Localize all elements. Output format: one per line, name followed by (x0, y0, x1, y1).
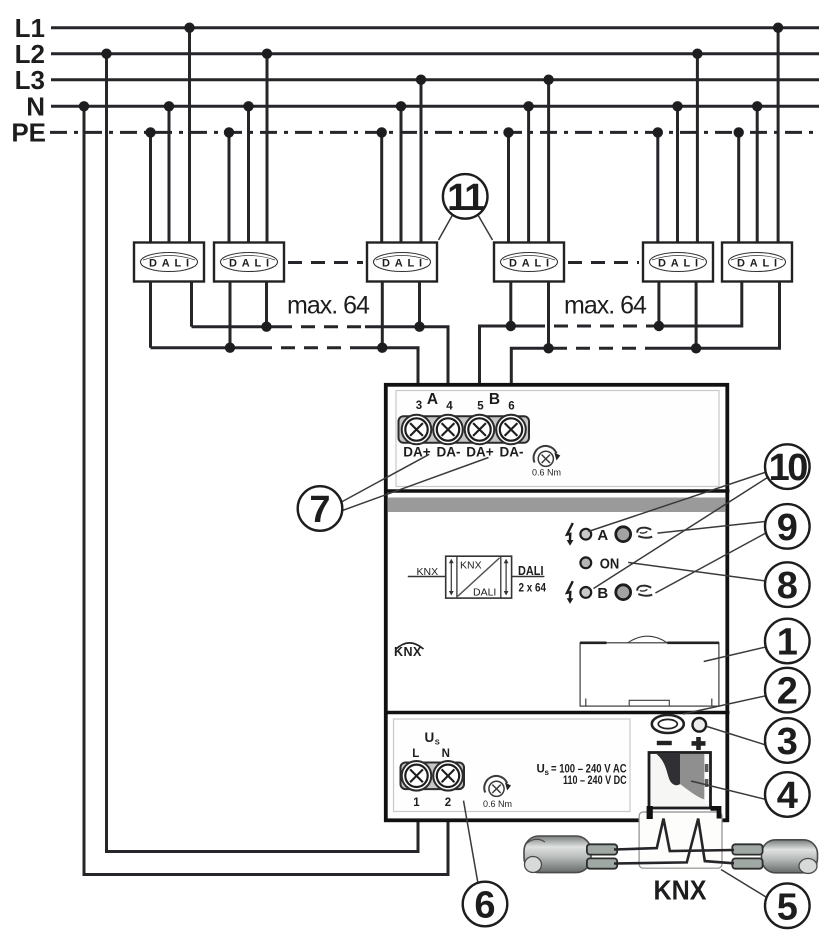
svg-text:DA+: DA+ (403, 445, 430, 460)
connector foot left (647, 806, 653, 819)
svg-text:2 x 64: 2 x 64 (519, 583, 547, 595)
DALI ballast 4 (494, 243, 564, 282)
junction PE ballast3 (377, 127, 387, 137)
svg-text:A: A (427, 391, 438, 408)
wire L2 feed to device terminal 1 (107, 54, 419, 852)
wire ballast2 DA drop upper (265, 282, 268, 327)
svg-text:ON: ON (600, 556, 620, 572)
junction lower bus B ballast4 (543, 343, 553, 353)
junction L2 ballast5 (692, 49, 702, 59)
svg-text:9: 9 (777, 507, 798, 549)
wire channel box below connector (639, 812, 722, 868)
svg-text:S: S (435, 738, 440, 747)
junction lower bus A ballast2 (225, 343, 235, 353)
wire ballast3 DA drop lower (381, 282, 384, 348)
callout 11 (443, 174, 488, 219)
wire N to ballast6 (756, 106, 759, 243)
DALI BUS B (right group) (480, 282, 780, 384)
wire L2 to ballast5 (696, 54, 699, 243)
programming button item2 (652, 715, 684, 733)
junction N ballast2 (243, 101, 253, 111)
minus sign (657, 741, 672, 745)
wire L1 (51, 26, 819, 29)
junction L3 ballast4 (543, 75, 553, 85)
dashed DALI link ballast4-ballast5 (568, 261, 639, 264)
lightning icon B (567, 581, 574, 604)
svg-text:7: 7 (309, 489, 330, 531)
junction N ballast3 (396, 101, 406, 111)
svg-text:U: U (425, 730, 435, 745)
push button A (616, 527, 631, 542)
junction upper bus A ballast2 (261, 322, 271, 332)
BUSBAR-SECTION (50, 28, 819, 133)
leader line callout 5 to KNX wires (721, 870, 767, 898)
leader line callout 7 to DA+ B (341, 458, 489, 512)
wire PE to ballast2 (228, 132, 231, 243)
DALI ballast 2 (214, 243, 284, 282)
terminal panel bottom (394, 719, 631, 812)
svg-text:1: 1 (777, 622, 798, 664)
wire upper bus B dashed (531, 325, 647, 328)
DALI BALLAST WIRE DROPS (151, 28, 779, 243)
svg-text:2: 2 (777, 671, 798, 713)
wire upper bus A solid right + riser to terminal 4 (365, 327, 448, 383)
junction lower bus B ballast5 (691, 343, 701, 353)
wire ballast1 DA to lower bus A (149, 282, 152, 348)
leader line callout 3 to programming LED (707, 727, 766, 746)
connector foot right (711, 806, 722, 819)
push button B (616, 585, 631, 600)
programming LED item3 (693, 718, 707, 732)
wire L1 to ballast6 (777, 28, 780, 243)
junction N ballast5 (672, 101, 682, 111)
wire ballast1 DA to upper bus A (190, 282, 193, 327)
svg-text:L3: L3 (15, 65, 45, 95)
cable right wire stub lower (732, 858, 762, 868)
wire N to ballast4 (527, 106, 530, 243)
wire ballast2 DA drop lower (229, 282, 232, 348)
wire lower bus B solid right + corner to ballast6 (648, 282, 780, 349)
leader line callout 6 to terminal 2 (464, 801, 479, 884)
cable left wire stub upper (587, 844, 617, 854)
svg-text:KNX: KNX (654, 875, 708, 906)
KNX lead-in line (408, 576, 446, 578)
callout 8 (765, 562, 810, 607)
leader line callout 10 to LED A (588, 472, 766, 532)
screw terminal 1 (405, 765, 427, 787)
wire ballast4 DA drop lower (547, 282, 550, 349)
svg-text:PE: PE (11, 118, 46, 148)
device section divider bottom (384, 711, 730, 714)
wire lower bus A solid left (151, 346, 259, 349)
DALI ballast 3 (367, 243, 437, 282)
wire ballast3 DA drop upper (418, 282, 421, 327)
wire N to ballast5 (676, 106, 679, 243)
svg-text:max. 64: max. 64 (287, 292, 370, 320)
hand icon A (637, 528, 652, 538)
svg-text:B: B (597, 585, 608, 602)
callout 9 (765, 504, 810, 549)
DALI BUS A (left group) (151, 282, 449, 384)
wire N (51, 105, 819, 108)
wire lower bus B dashed (553, 347, 648, 350)
wire L3 (51, 78, 819, 81)
junction L3 ballast3 (416, 75, 426, 85)
svg-text:DALI: DALI (518, 564, 544, 578)
wire PE to ballast1 (149, 132, 152, 243)
device gray band (388, 498, 726, 513)
terminal panel top (396, 391, 719, 487)
plus sign (692, 737, 706, 750)
wire PE to ballast4 (507, 132, 510, 243)
wire PE to ballast5 (656, 132, 659, 243)
junction upper bus B ballast5 (654, 321, 664, 331)
screw terminal 6 (500, 418, 522, 440)
wire N feed to device terminal 2 (84, 106, 448, 874)
svg-text:8: 8 (777, 565, 798, 607)
wire lower bus B riser terminal 6 + solid left (511, 348, 553, 383)
svg-text:2: 2 (445, 797, 451, 809)
leader line callout 10 to LED B (594, 478, 768, 589)
leader line callout 8 to ON (628, 562, 765, 581)
svg-text:L: L (412, 748, 419, 760)
svg-text:DA-: DA- (437, 445, 461, 460)
svg-text:N: N (442, 748, 450, 760)
svg-text:A: A (597, 527, 608, 544)
svg-text:1: 1 (413, 797, 420, 809)
wire upper bus B riser terminal 5 + solid left (480, 326, 532, 383)
screw terminal 5 (468, 418, 490, 440)
wire upper bus B solid right + corner to ballast6 (647, 282, 742, 327)
junction PE ballast2 (224, 127, 234, 137)
torque icon top (534, 446, 561, 466)
leader line callout 9 to hand A (657, 522, 765, 534)
KNX bus wire lower with peak (614, 819, 734, 864)
callout 1 (765, 619, 810, 664)
screw terminal 3 (405, 418, 427, 440)
wire upper bus A solid left (192, 325, 279, 328)
wire L3 to ballast3 (420, 80, 423, 243)
svg-text:3: 3 (777, 721, 798, 763)
svg-text:DA+: DA+ (466, 445, 493, 460)
svg-text:4: 4 (446, 401, 453, 413)
wire ballast4 DA drop upper (509, 282, 512, 327)
SUPPLY-DROPS (84, 54, 448, 875)
dashed DALI link ballast2-ballast3 (288, 261, 363, 264)
svg-text:10: 10 (769, 447, 808, 489)
svg-text:11: 11 (447, 177, 485, 219)
DALI lead-out line (512, 576, 545, 578)
DALI ballast 6 (722, 243, 792, 282)
svg-text:6: 6 (474, 885, 495, 927)
lightning icon A (567, 523, 574, 546)
svg-text:110 – 240 V DC: 110 – 240 V DC (563, 775, 627, 787)
torque icon bottom (484, 776, 511, 796)
junction upper bus A ballast3 (414, 322, 424, 332)
svg-text:DALI: DALI (473, 587, 496, 599)
cable left wire stub lower (587, 858, 617, 868)
junction PE ballast6 (734, 127, 744, 137)
svg-text:5: 5 (777, 886, 798, 928)
callout 3 (765, 718, 810, 763)
svg-text:= 100 – 240 V AC: = 100 – 240 V AC (551, 764, 627, 776)
DALI ballast 5 (643, 243, 713, 282)
junction N feed (79, 101, 89, 111)
LED ON (580, 557, 591, 568)
wire PE to ballast3 (380, 132, 383, 243)
junction upper bus B ballast4 (506, 321, 516, 331)
wire lower bus A solid right + riser to terminal 3 (352, 348, 418, 383)
callout 10 (765, 444, 810, 489)
svg-text:0.6 Nm: 0.6 Nm (532, 468, 561, 478)
leader line callout 7 to DA+ A (341, 454, 430, 502)
junction L2 feed (101, 49, 111, 59)
wire N to ballast3 (400, 106, 403, 243)
LED B (580, 587, 591, 598)
wire PE (50, 131, 819, 134)
wire L3 to ballast4 (547, 80, 550, 243)
leader line callout 9 to hand B (655, 533, 766, 594)
svg-text:B: B (489, 391, 500, 408)
junction PE ballast5 (653, 127, 663, 137)
KNX bus wire upper with peak (614, 819, 734, 851)
wire N to ballast1 (168, 106, 171, 243)
junction N ballast4 (523, 101, 533, 111)
screw terminal 2 (437, 765, 459, 787)
junction lower bus A ballast3 (377, 343, 387, 353)
callout 6 (463, 882, 508, 927)
DALI terminal block carrier (399, 415, 530, 445)
callout 7 (298, 486, 343, 531)
wire ballast5 DA drop upper (657, 282, 660, 327)
DALI ballast 1 (134, 243, 204, 282)
wire L2 (51, 52, 819, 55)
junction L1 ballast1 (184, 23, 194, 33)
junction L1 ballast6 (773, 23, 783, 33)
junction N ballast1 (164, 101, 174, 111)
leader line callout 11 left (439, 215, 453, 240)
hand icon B (637, 586, 652, 596)
KNX bus connection terminal item4 (649, 753, 711, 809)
junction PE ballast4 (503, 127, 513, 137)
svg-text:max. 64: max. 64 (564, 292, 647, 320)
LED A (580, 529, 591, 540)
wire PE to ballast6 (737, 132, 740, 243)
wire ballast5 DA drop lower (695, 282, 698, 349)
KNX logo on device (394, 643, 424, 659)
wire L2 to ballast2 (266, 54, 269, 243)
junction PE ballast1 (145, 127, 155, 137)
block diagram KNX-DALI (446, 556, 512, 598)
svg-text:6: 6 (508, 401, 514, 413)
junction dots on busbars (145, 23, 783, 138)
KNX cable left (524, 836, 591, 873)
power terminal block carrier (401, 761, 465, 791)
svg-text:5: 5 (477, 401, 484, 413)
callout 4 (765, 772, 810, 817)
leader line callout 1 to label holder (704, 647, 766, 662)
leader line callout 4 to bus terminal (691, 781, 766, 800)
KNX cable right (762, 840, 818, 874)
wire N to ballast2 (247, 106, 250, 243)
wire L1 to ballast1 (188, 28, 191, 243)
svg-text:s: s (545, 768, 550, 777)
svg-text:DA-: DA- (500, 445, 524, 460)
wire upper bus A dashed (278, 325, 365, 328)
svg-text:3: 3 (416, 400, 422, 412)
callout 2 (765, 668, 810, 713)
leader line callout 2 to programming button (683, 696, 766, 714)
svg-text:KNX: KNX (417, 566, 439, 578)
junction N ballast6 (752, 101, 762, 111)
svg-text:0.6 Nm: 0.6 Nm (483, 799, 512, 809)
gateway device U1 outline (386, 385, 728, 821)
svg-text:KNX: KNX (460, 560, 482, 572)
leader line callout 11 right (478, 215, 493, 240)
device section divider top (384, 489, 730, 492)
label holder item1 (580, 636, 719, 706)
cable right wire stub upper (732, 844, 762, 854)
callout 5 (765, 883, 810, 928)
DALI BALLAST BOXES (134, 243, 792, 282)
wire lower bus A dashed (258, 346, 352, 349)
screw terminal 4 (437, 418, 459, 440)
svg-text:4: 4 (777, 775, 798, 817)
junction L2 ballast2 (262, 49, 272, 59)
